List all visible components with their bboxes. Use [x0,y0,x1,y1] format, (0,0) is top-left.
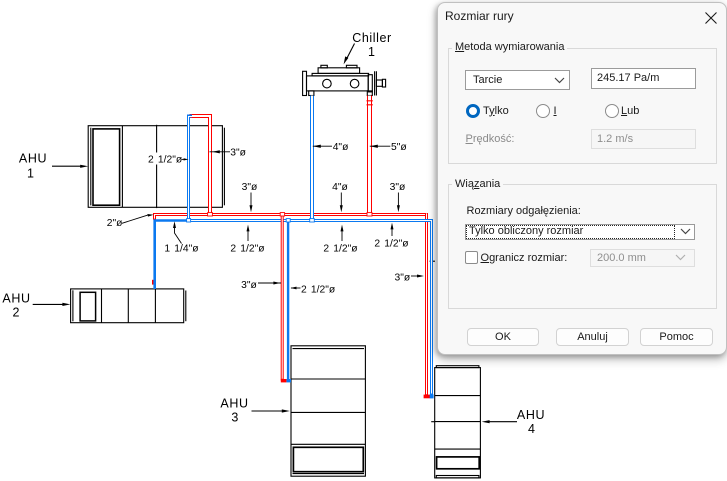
Predkosc disabled [466,133,515,145]
node: blue tee at AHU1 riser [187,219,191,222]
group 1 [448,48,717,164]
svg-text:2 1/2"ø: 2 1/2"ø [323,244,358,255]
svg-text:2: 2 [13,305,20,319]
svg-text:2 1/2"ø: 2 1/2"ø [148,155,183,166]
label Chiller 1 [352,31,392,59]
svg-text:1: 1 [27,167,34,181]
svg-text:AHU: AHU [2,292,30,306]
svg-text:AHU: AHU [19,152,47,166]
svg-text:2"ø: 2"ø [107,218,123,229]
label AHU 4 [517,408,545,436]
pipes [153,96,434,399]
wire: blue riser AHU1 [189,116,193,221]
label AHU 2 [2,292,30,320]
svg-text:1 1/4"ø: 1 1/4"ø [164,244,199,255]
labels and leaders [2,31,545,436]
buttons [467,328,539,346]
chiller 1 body [303,65,386,95]
svg-text:5"ø: 5"ø [391,142,407,153]
group 2 [448,184,717,309]
wire: blue branch to AHU2 + small-bore main segment [155,221,187,290]
AHU unit 1 body [88,125,224,208]
label AHU 3 [220,397,248,425]
svg-text:2 1/2"ø: 2 1/2"ø [230,244,265,255]
wire: blue main trunk [187,221,434,399]
wire: blue riser to AHU3 [286,221,291,383]
svg-text:3"ø: 3"ø [242,182,258,193]
svg-text:3"ø: 3"ø [230,148,246,159]
wire: red main trunk horizontal [155,215,429,220]
wire: red riser from chiller [367,96,373,214]
close X [699,6,723,30]
svg-text:3"ø: 3"ø [241,280,257,291]
node: blue tee at chiller riser [310,219,315,222]
svg-text:3: 3 [231,411,238,425]
label 2 1/2"ø at AHU1 [147,153,184,165]
combo Tarcie [465,70,570,90]
AHU unit 3 body [291,346,365,476]
node: red tee at chiller riser [367,213,372,216]
node: blue tee at AHU3 riser [286,219,290,222]
svg-text:4"ø: 4"ø [333,142,349,153]
wire: red loop over AHU1 [190,116,211,213]
svg-text:3"ø: 3"ø [395,272,411,283]
radios [466,104,480,118]
label AHU 1 [19,152,47,181]
svg-text:3"ø: 3"ø [390,182,406,193]
wire: red riser to AHU3 [281,213,287,382]
svg-text:1: 1 [368,45,375,59]
field 245.17 [591,68,696,89]
AHU unit 2 body [71,289,186,323]
wire: blue riser from chiller [310,96,314,222]
svg-text:4: 4 [528,422,535,436]
svg-text:AHU: AHU [517,408,545,422]
svg-text:2 1/2"ø: 2 1/2"ø [374,239,409,250]
svg-text:AHU: AHU [220,397,248,411]
tick on pipe near AHU4 [430,260,435,262]
wire: red stub at AHU2 [152,280,154,285]
svg-text:2 1/2"ø: 2 1/2"ø [301,284,336,295]
svg-text:4"ø: 4"ø [332,182,348,193]
dialog Rozmiar rury [437,2,727,355]
wire: red drop to AHU4 [424,213,430,398]
node: red tee at AHU1 riser [208,213,213,216]
AHU unit 4 body [431,366,480,478]
pipe size labels [107,142,424,295]
focused combo [465,224,695,240]
svg-text:Chiller: Chiller [352,31,392,45]
node: red tee at AHU3 riser [280,213,284,216]
checkbox row [465,251,478,264]
